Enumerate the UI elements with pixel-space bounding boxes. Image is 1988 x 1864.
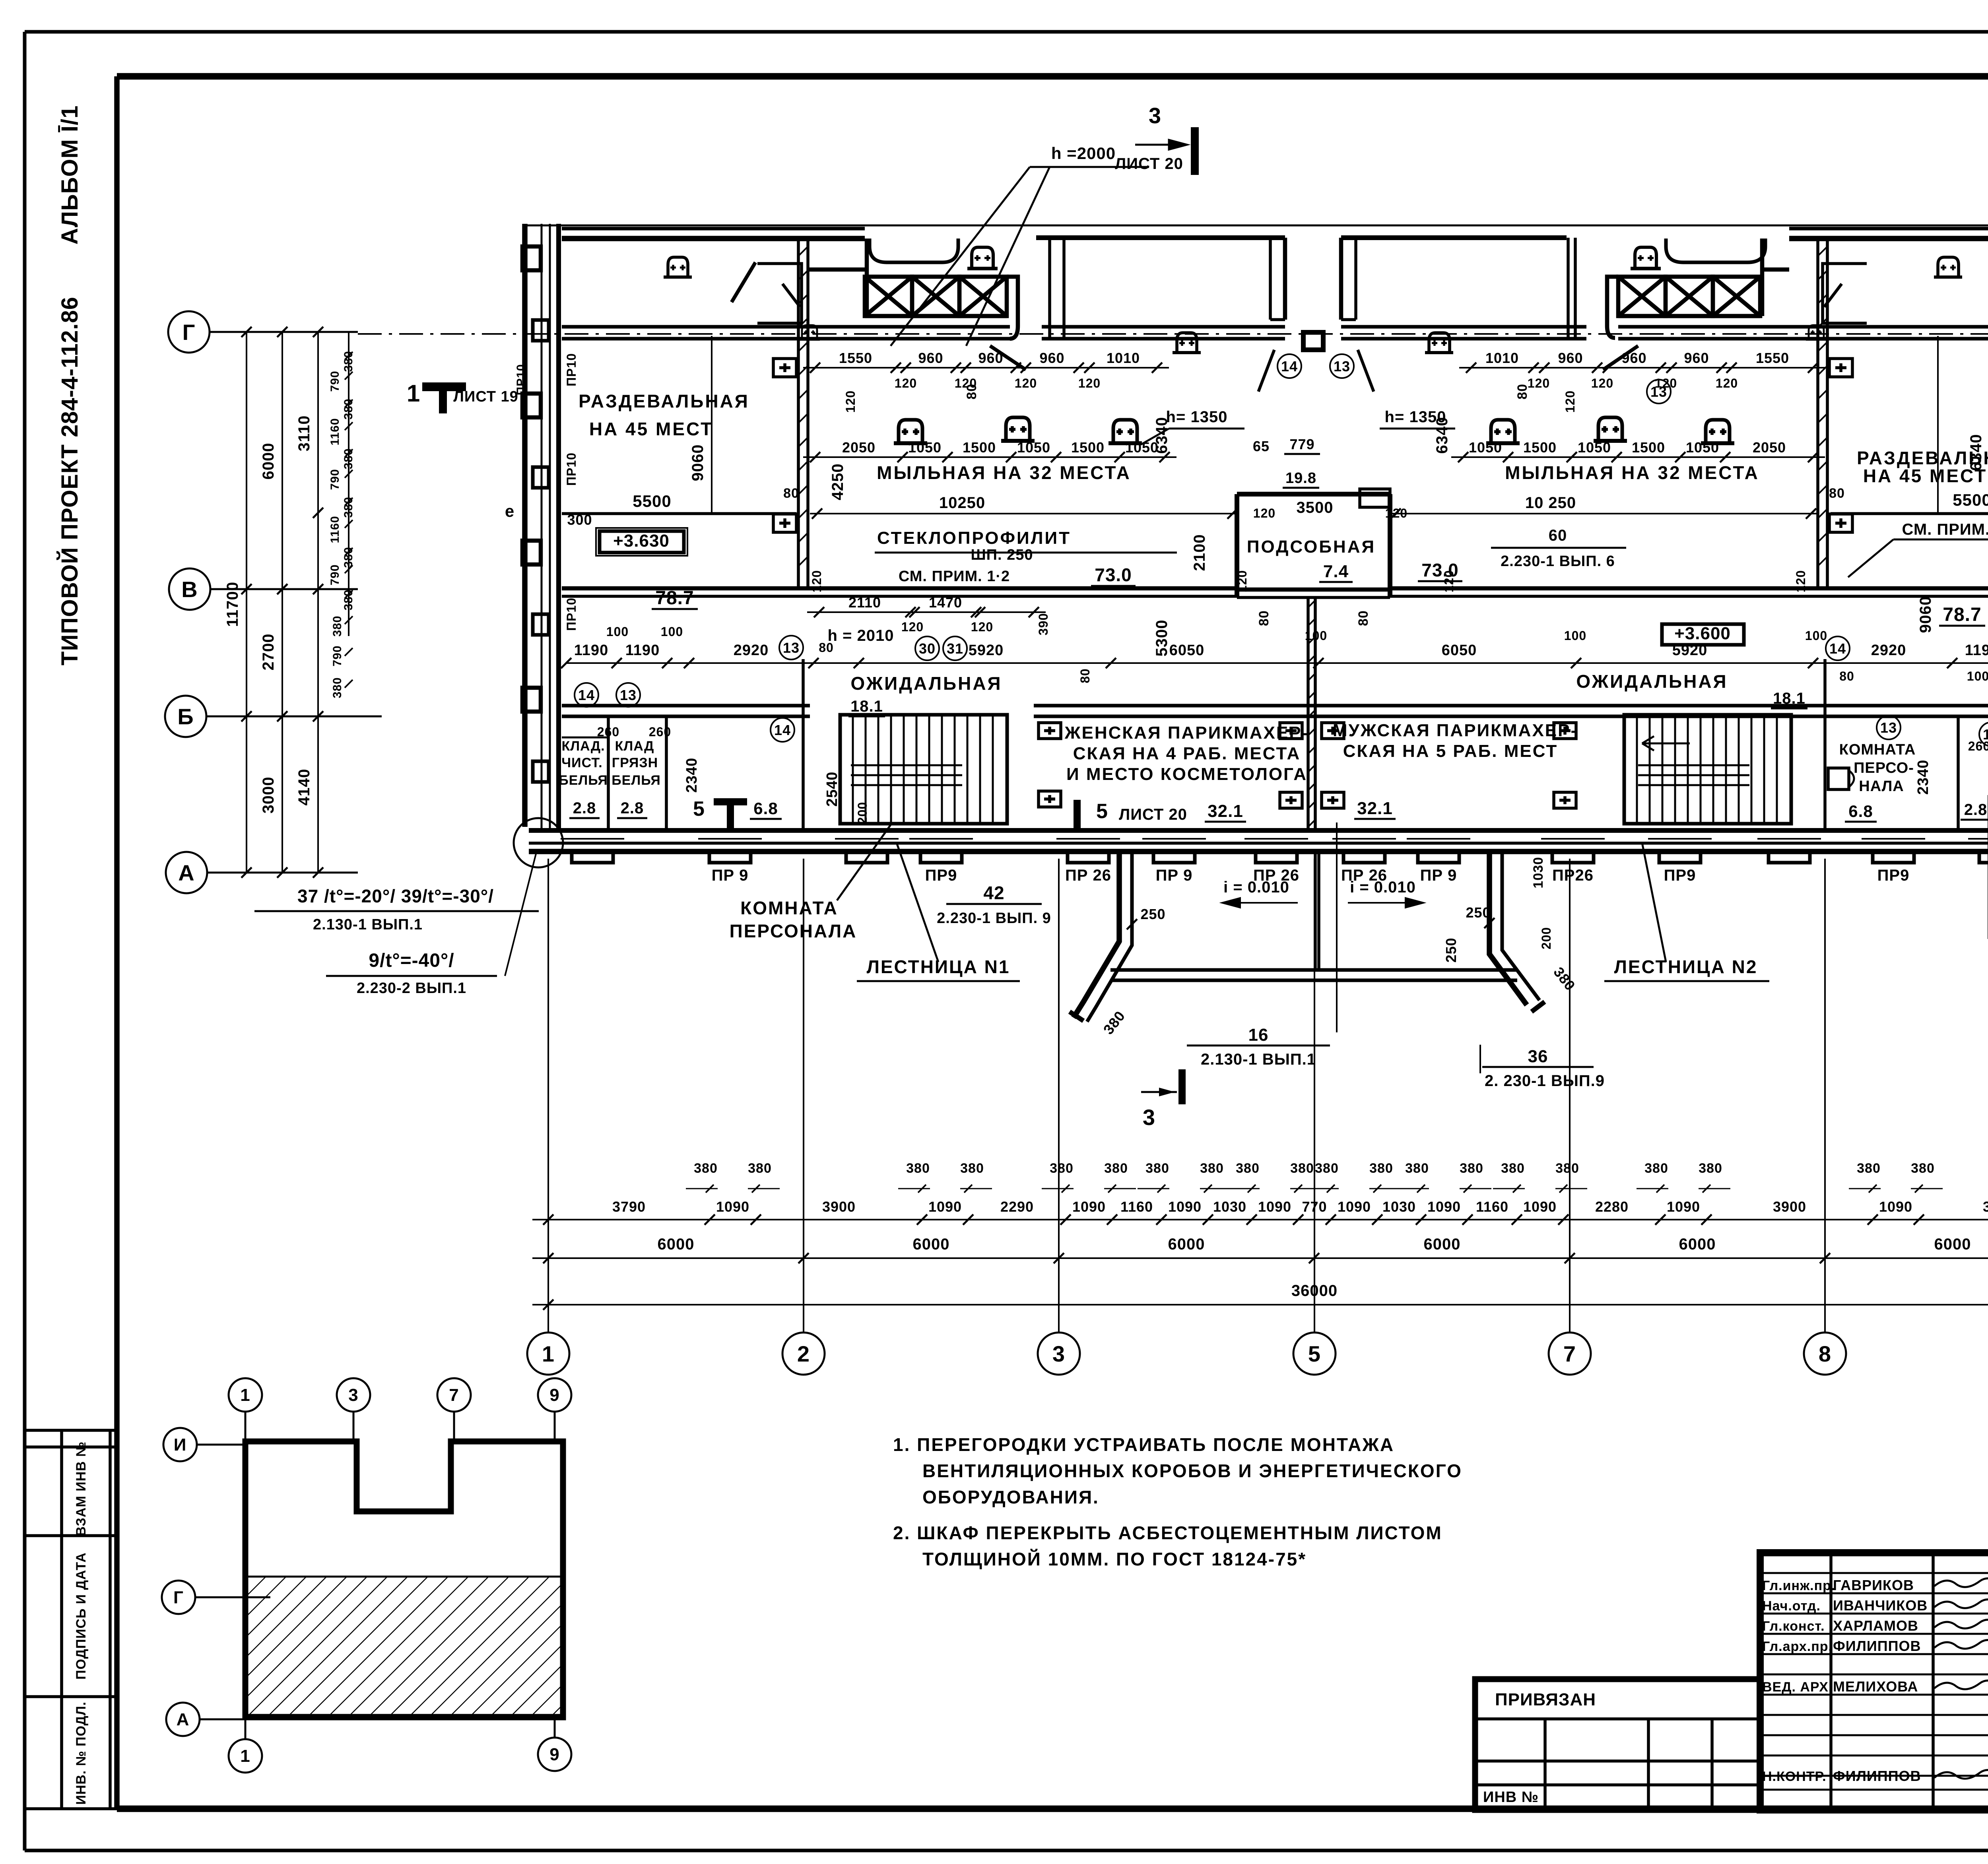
svg-text:11700: 11700 [224,582,241,627]
svg-text:2.8: 2.8 [621,799,644,817]
svg-text:1090: 1090 [1523,1199,1557,1215]
svg-text:32.1: 32.1 [1357,799,1393,818]
svg-text:1030: 1030 [1213,1199,1246,1215]
washbasins mylnaya left [894,441,927,445]
axis G dash-dot line [358,333,1988,335]
svg-text:ХАРЛАМОВ: ХАРЛАМОВ [1833,1618,1918,1634]
washbasin top left wall [664,275,692,279]
svg-text:h =2000: h =2000 [1051,144,1116,163]
svg-text:СМ. ПРИМ. 1·2: СМ. ПРИМ. 1·2 [899,568,1010,585]
svg-text:1500: 1500 [963,439,996,456]
svg-text:СКАЯ НА 4 РАБ. МЕСТА: СКАЯ НА 4 РАБ. МЕСТА [1073,744,1301,763]
svg-text:100: 100 [1305,628,1327,643]
svg-text:1010: 1010 [1485,350,1519,366]
svg-text:390: 390 [1036,613,1050,635]
svg-text:ГАВРИКОВ: ГАВРИКОВ [1833,1577,1914,1593]
axis G wall band [562,325,1010,329]
svg-text:1010: 1010 [1107,350,1140,366]
svg-text:Нач.отд.: Нач.отд. [1762,1598,1821,1614]
svg-text:3: 3 [1149,103,1161,128]
svg-text:2920: 2920 [1871,642,1906,659]
svg-text:1090: 1090 [1258,1199,1291,1215]
svg-text:5: 5 [1096,800,1108,823]
svg-text:2920: 2920 [734,642,769,659]
svg-text:КЛАД: КЛАД [615,739,654,754]
svg-text:2.230-1 ВЫП. 6: 2.230-1 ВЫП. 6 [1501,553,1615,570]
title block privyazan box [1475,1679,1760,1810]
left axis leader lines [210,331,358,333]
svg-text:Г: Г [173,1588,184,1607]
svg-text:И МЕСТО КОСМЕТОЛОГА: И МЕСТО КОСМЕТОЛОГА [1066,764,1307,784]
closet razdevalnaya top right [1823,264,1867,323]
axis e wall right razdevalnaya [1831,512,1988,515]
left wall column base [514,818,563,867]
svg-text:БЕЛЬЯ: БЕЛЬЯ [612,773,661,788]
svg-text:1030: 1030 [1382,1199,1416,1215]
svg-text:1160: 1160 [328,418,342,445]
svg-text:80: 80 [1829,486,1845,501]
svg-text:380: 380 [1050,1161,1074,1176]
window 380 sub dims [686,1188,718,1189]
svg-text:80: 80 [783,486,799,501]
svg-text:1050: 1050 [1017,439,1050,456]
wall mylnaya-razdevalnaya right [1816,239,1819,588]
left end wall crenellated [522,224,528,827]
svg-text:е: е [505,502,514,520]
center shaft box [1303,332,1323,350]
svg-text:60: 60 [1549,527,1567,544]
svg-text:Н.КОНТР.: Н.КОНТР. [1762,1769,1827,1784]
wall komnata personala right partition [1823,659,1827,830]
svg-text:Гл.арх.пр.: Гл.арх.пр. [1762,1639,1833,1654]
key plan outline [245,1441,563,1717]
svg-text:380: 380 [342,448,355,469]
svg-text:65: 65 [1253,438,1270,454]
svg-text:380: 380 [331,677,344,698]
svg-text:ОЖИДАЛЬНАЯ: ОЖИДАЛЬНАЯ [1576,671,1728,692]
svg-text:120: 120 [1563,390,1577,413]
svg-text:5920: 5920 [1672,642,1708,659]
axis V wall podsobnaya bottom [1237,588,1390,592]
svg-text:2050: 2050 [1753,439,1786,456]
svg-text:100: 100 [1564,628,1586,643]
svg-text:Гл.конст.: Гл.конст. [1762,1619,1825,1634]
podsobnaya door niche [1360,489,1390,507]
svg-text:3900: 3900 [1773,1199,1806,1215]
svg-text:37 /t°=-20°/ 39/t°=-30°/: 37 /t°=-20°/ 39/t°=-30°/ [297,886,494,906]
vestibule wall left pair [1048,238,1051,338]
washbasins mylnaya right [1486,441,1520,445]
closet razdevalnaya top [757,264,802,323]
axis dim row 6000 [532,1257,1988,1259]
svg-text:ЛЕСТНИЦА N2: ЛЕСТНИЦА N2 [1614,956,1758,977]
svg-text:МЕЛИХОВА: МЕЛИХОВА [1833,1678,1918,1695]
dim line 10250 left mylnaya [810,513,1237,514]
svg-text:ИНВ. № ПОДЛ.: ИНВ. № ПОДЛ. [74,1701,89,1805]
svg-text:Г: Г [182,320,196,345]
dim row mylnaya left top [803,367,1169,369]
circled numbers center top [1277,354,1301,378]
svg-text:1160: 1160 [1120,1199,1153,1215]
svg-text:ОЖИДАЛЬНАЯ: ОЖИДАЛЬНАЯ [850,673,1002,694]
svg-text:НАЛА: НАЛА [1859,778,1904,795]
svg-text:120: 120 [971,620,993,634]
svg-text:3790: 3790 [612,1199,646,1215]
svg-text:380: 380 [331,615,344,636]
svg-text:380: 380 [1369,1161,1393,1176]
svg-text:1550: 1550 [839,350,872,366]
svg-text:ИВАНЧИКОВ: ИВАНЧИКОВ [1833,1597,1928,1614]
svg-text:4140: 4140 [295,769,313,806]
svg-text:ПЕРСО-: ПЕРСО- [1854,760,1914,776]
svg-text:6000: 6000 [1679,1236,1716,1253]
svg-text:7: 7 [1563,1341,1576,1366]
svg-text:80: 80 [1078,668,1092,683]
svg-text:3: 3 [1052,1341,1065,1366]
svg-text:ПР26: ПР26 [1552,867,1594,884]
svg-text:i = 0.010: i = 0.010 [1223,879,1289,896]
svg-text:ПР9: ПР9 [925,867,957,884]
svg-text:7: 7 [449,1385,459,1405]
dim line 10250 right mylnaya [1390,513,1817,514]
svg-text:ПР10: ПР10 [564,597,579,631]
svg-text:30: 30 [919,640,936,657]
komnata personala washbasin [1828,768,1849,789]
vertical dim 9060 left [711,336,712,513]
svg-text:380: 380 [1699,1161,1722,1176]
svg-text:1090: 1090 [1667,1199,1700,1215]
svg-text:1050: 1050 [1578,439,1611,456]
roof edge line top [522,225,1988,227]
svg-text:1: 1 [542,1341,555,1366]
circled numbers left [575,683,598,707]
svg-text:9060: 9060 [1917,596,1934,633]
north wall mid segments [1036,235,1285,240]
svg-text:2.130-1 ВЫП.1: 2.130-1 ВЫП.1 [1201,1051,1316,1068]
svg-text:3000: 3000 [260,777,277,814]
svg-text:80: 80 [1515,384,1530,400]
svg-text:ПР 9: ПР 9 [712,867,749,884]
south wall [529,828,1988,833]
svg-text:2110: 2110 [848,594,881,611]
svg-text:ЛИСТ 20: ЛИСТ 20 [1119,806,1187,823]
svg-text:120: 120 [1591,376,1613,390]
svg-text:5500: 5500 [633,492,671,510]
svg-text:6050: 6050 [1442,642,1477,659]
svg-text:960: 960 [1039,350,1064,366]
svg-text:13: 13 [1334,358,1350,374]
svg-text:260: 260 [597,725,619,739]
svg-text:380: 380 [1501,1161,1525,1176]
key plan axis circles left [163,1428,197,1461]
svg-text:120: 120 [1794,570,1808,592]
svg-text:960: 960 [1558,350,1583,366]
svg-text:380: 380 [1200,1161,1224,1176]
svg-text:790: 790 [328,564,342,585]
svg-text:3: 3 [1143,1105,1155,1130]
svg-text:МЫЛЬНАЯ НА 32 МЕСТА: МЫЛЬНАЯ НА 32 МЕСТА [877,462,1131,483]
svg-text:ПР 26: ПР 26 [1065,867,1111,884]
svg-text:78.7: 78.7 [655,588,694,609]
svg-text:120: 120 [1253,506,1276,520]
dim row mylnaya right top [1459,367,1825,369]
svg-text:i = 0.010: i = 0.010 [1350,879,1416,896]
svg-text:ГРЯЗН: ГРЯЗН [612,755,658,770]
svg-text:Гл.инж.пр.: Гл.инж.пр. [1762,1578,1835,1593]
svg-text:ТОЛЩИНОЙ 10ММ. ПО ГОСТ 18124-: ТОЛЩИНОЙ 10ММ. ПО ГОСТ 18124-75* [922,1549,1307,1569]
svg-text:РАЗДЕВАЛЬНАЯ: РАЗДЕВАЛЬНАЯ [579,391,749,411]
svg-text:80: 80 [1839,669,1854,683]
svg-text:3900: 3900 [822,1199,856,1215]
axis circle V [169,568,210,610]
svg-text:380: 380 [694,1161,718,1176]
svg-text:120: 120 [1385,506,1408,520]
svg-text:10250: 10250 [939,494,985,512]
svg-text:6.8: 6.8 [1848,802,1873,820]
svg-text:КОМНАТА: КОМНАТА [740,898,838,918]
svg-text:МЫЛЬНАЯ НА 32 МЕСТА: МЫЛЬНАЯ НА 32 МЕСТА [1505,462,1759,483]
svg-text:АЛЬБОМ Ī/1: АЛЬБОМ Ī/1 [57,105,83,245]
svg-text:ПОДСОБНАЯ: ПОДСОБНАЯ [1247,537,1376,557]
svg-text:1090: 1090 [1168,1199,1202,1215]
staff signatures [1934,1578,1988,1587]
axis circle G [168,311,210,353]
section mark 1 list 19 left [422,382,466,391]
svg-text:200: 200 [1539,927,1553,949]
axis circle A [166,852,207,893]
svg-text:5300: 5300 [1153,620,1171,657]
axis circle B [165,696,206,737]
circled numbers right [1826,636,1850,660]
svg-text:380: 380 [1857,1161,1881,1176]
svg-text:2.230-1 ВЫП. 9: 2.230-1 ВЫП. 9 [937,910,1051,927]
svg-text:2280: 2280 [1595,1199,1629,1215]
svg-text:380: 380 [1236,1161,1260,1176]
svg-text:2700: 2700 [260,634,277,671]
svg-text:1050: 1050 [908,439,942,456]
svg-text:14: 14 [1281,358,1298,374]
svg-text:18.1: 18.1 [1773,690,1806,707]
south wall pilasters [572,852,613,863]
svg-text:5: 5 [1308,1341,1321,1366]
svg-text:32.1: 32.1 [1208,801,1243,821]
svg-text:19.8: 19.8 [1285,470,1316,487]
svg-text:250: 250 [1466,904,1491,921]
svg-text:9: 9 [549,1745,559,1764]
svg-text:4250: 4250 [829,464,846,500]
left balcony canopy U [870,239,958,262]
axis verticals to circles [547,859,549,1333]
axis circles bottom [527,1333,569,1375]
svg-text:3110: 3110 [295,415,313,452]
svg-text:6000: 6000 [260,443,277,480]
svg-text:ПР10: ПР10 [564,452,579,486]
svg-text:250: 250 [1443,937,1459,962]
svg-text:1500: 1500 [1523,439,1557,456]
svg-text:ВЗАМ ИНВ №: ВЗАМ ИНВ № [74,1441,89,1536]
door swing right bay [1603,346,1638,370]
svg-text:78.7: 78.7 [1943,604,1981,625]
svg-text:960: 960 [1684,350,1709,366]
vestibule wall right pair [1567,238,1570,338]
svg-text:80: 80 [964,384,979,400]
svg-text:2. ШКАФ ПЕРЕКРЫТЬ АСБЕСТОЦЕМЕН: 2. ШКАФ ПЕРЕКРЫТЬ АСБЕСТОЦЕМЕНТНЫМ ЛИСТО… [893,1523,1442,1543]
svg-text:КОМНАТА: КОМНАТА [1839,741,1916,758]
svg-text:2050: 2050 [842,439,876,456]
svg-text:ОБОРУДОВАНИЯ.: ОБОРУДОВАНИЯ. [922,1487,1099,1507]
ramp right wall [1489,852,1527,1005]
svg-text:380: 380 [906,1161,930,1176]
svg-text:36: 36 [1528,1047,1548,1066]
svg-text:2290: 2290 [1000,1199,1034,1215]
svg-text:120: 120 [810,570,824,592]
title block outer [1760,1553,1988,1810]
svg-text:1090: 1090 [1427,1199,1461,1215]
svg-text:31: 31 [947,640,963,657]
svg-text:ТИПОВОЙ ПРОЕКТ 284-4-112.86: ТИПОВОЙ ПРОЕКТ 284-4-112.86 [57,297,83,665]
svg-text:790: 790 [331,645,344,666]
svg-text:6050: 6050 [1169,642,1205,659]
svg-text:960: 960 [918,350,943,366]
svg-text:5: 5 [693,797,705,820]
svg-text:14: 14 [578,687,595,703]
door swing left bay [990,346,1026,370]
svg-text:СМ. ПРИМ. 1: СМ. ПРИМ. 1 [1902,521,1988,538]
svg-text:6000: 6000 [1168,1236,1205,1253]
svg-text:1550: 1550 [1756,350,1789,366]
svg-text:380: 380 [1290,1161,1314,1176]
svg-text:1160: 1160 [1476,1199,1508,1215]
svg-text:380: 380 [960,1161,984,1176]
svg-text:1090: 1090 [1338,1199,1371,1215]
svg-text:ЖЕНСКАЯ ПАРИКМАХЕР-: ЖЕНСКАЯ ПАРИКМАХЕР- [1064,723,1309,743]
svg-text:300: 300 [567,512,592,528]
svg-text:100: 100 [606,625,629,639]
svg-text:120: 120 [901,620,924,634]
svg-text:В: В [181,577,198,602]
svg-text:БЕЛЬЯ: БЕЛЬЯ [559,773,608,788]
svg-text:779: 779 [1289,436,1314,452]
svg-text:h= 1350: h= 1350 [1166,408,1228,426]
overall dim 36000 [532,1304,1988,1305]
svg-text:1050: 1050 [1469,439,1502,456]
svg-text:2. 230-1 ВЫП.9: 2. 230-1 ВЫП.9 [1485,1072,1605,1090]
ramp left wall [1074,852,1119,1018]
svg-text:120: 120 [843,390,858,413]
svg-text:7.4: 7.4 [1323,562,1349,581]
svg-text:14: 14 [1829,640,1846,657]
svg-text:16: 16 [1248,1025,1269,1045]
svg-text:380: 380 [1104,1161,1128,1176]
svg-text:6000: 6000 [1424,1236,1461,1253]
ramp center wall [1314,852,1317,970]
right balcony washbasin [1631,267,1661,270]
svg-text:ВЕД. АРХ.: ВЕД. АРХ. [1762,1680,1833,1695]
dim row mylnaya right mid [1451,456,1825,458]
central duct shaft walls top [1283,238,1287,320]
svg-text:ЛИСТ 20: ЛИСТ 20 [1115,155,1183,173]
svg-text:100: 100 [1805,628,1827,643]
svg-text:5500: 5500 [1953,491,1988,509]
svg-text:1500: 1500 [1071,439,1105,456]
svg-text:380: 380 [1145,1161,1169,1176]
svg-text:1090: 1090 [1879,1199,1912,1215]
svg-text:380: 380 [1460,1161,1483,1176]
svg-text:960: 960 [978,350,1003,366]
svg-text:6340: 6340 [1153,417,1171,454]
svg-text:80: 80 [1256,610,1272,626]
key plan axis circles top [229,1378,262,1412]
svg-text:1500: 1500 [1632,439,1665,456]
svg-text:1: 1 [240,1385,250,1405]
svg-text:250: 250 [1140,906,1165,922]
left balcony washbasin [967,267,998,270]
dim row under glass wall left [807,611,1046,613]
north wall left section [562,236,865,241]
barber chairs plus boxes [1039,723,1061,739]
svg-text:3790: 3790 [1983,1199,1988,1215]
svg-text:1160: 1160 [328,516,342,543]
north wall right section [1789,236,1988,241]
right balcony canopy U [1666,239,1765,262]
svg-text:380: 380 [1315,1161,1339,1176]
svg-text:1190: 1190 [625,642,660,659]
svg-text:14: 14 [774,722,791,738]
svg-text:120: 120 [1015,376,1037,390]
section mark 3 bottom [1178,1069,1186,1104]
svg-text:120: 120 [1528,376,1550,390]
svg-text:ШП. 250: ШП. 250 [971,547,1033,563]
svg-text:42: 42 [983,883,1004,903]
svg-text:120: 120 [1235,570,1249,592]
central wall parikmakherskie [1307,597,1310,830]
svg-text:+3.630: +3.630 [613,531,670,551]
svg-text:1190: 1190 [574,642,608,659]
dim row ozhidalnaya [566,662,1988,664]
title block staff rows [1760,1572,1988,1574]
svg-text:6000: 6000 [913,1236,950,1253]
svg-text:6000: 6000 [1934,1236,1971,1253]
svg-text:18.1: 18.1 [850,698,883,715]
kladovaya walls right [1957,718,1960,830]
svg-text:МУЖСКАЯ ПАРИКМАХЕР-: МУЖСКАЯ ПАРИКМАХЕР- [1333,721,1578,740]
svg-text:2540: 2540 [824,772,841,807]
svg-text:9060: 9060 [689,444,707,481]
svg-text:Б: Б [177,704,194,729]
svg-text:ПР10: ПР10 [564,353,579,386]
left small dim chain 380-790 [348,332,349,513]
svg-text:200: 200 [855,802,870,824]
svg-text:6340: 6340 [1967,434,1985,471]
svg-text:6340: 6340 [1433,417,1451,454]
svg-text:960: 960 [1621,350,1646,366]
main frame [117,73,1988,80]
podsobnaya room [1237,492,1390,497]
svg-text:9: 9 [549,1385,559,1405]
kladovaya walls left [607,716,610,830]
stairs left [840,715,1007,824]
svg-text:1190: 1190 [1965,642,1988,659]
svg-text:100: 100 [1967,669,1988,683]
axis e wall left razdevalnaya [562,512,796,515]
wall ozhidalnaya left partition [802,659,805,830]
right balcony railing xboxes [1762,268,1789,272]
svg-text:73.0: 73.0 [1095,564,1132,585]
svg-text:1: 1 [407,380,420,407]
svg-text:2.130-1 ВЫП.1: 2.130-1 ВЫП.1 [313,916,423,933]
svg-text:А: А [178,860,194,885]
svg-text:ЛИСТ 19: ЛИСТ 19 [453,388,518,405]
